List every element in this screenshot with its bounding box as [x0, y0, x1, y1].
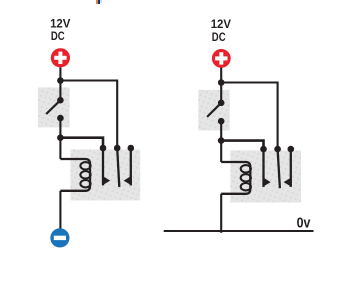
svg-text:0v: 0v: [297, 215, 311, 232]
svg-text:DC: DC: [212, 30, 226, 44]
svg-text:DC: DC: [51, 29, 65, 43]
